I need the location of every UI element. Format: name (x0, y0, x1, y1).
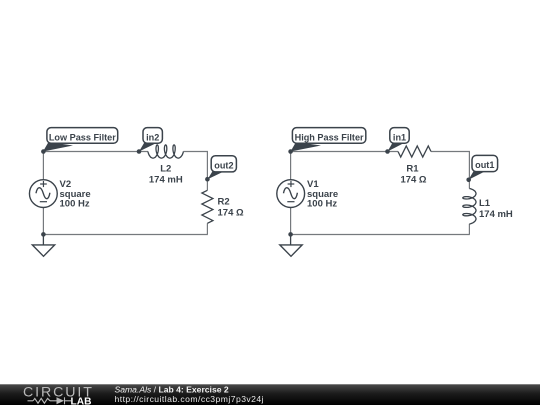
svg-text:L1: L1 (479, 198, 491, 209)
callout out1 (469, 155, 498, 179)
wire top-left vertical (V2 to top rail) (42, 152, 44, 180)
svg-text:R1: R1 (406, 164, 419, 175)
ground (left) (32, 245, 54, 256)
wire ground stub (42, 235, 44, 246)
svg-text:174 mH: 174 mH (479, 209, 513, 220)
node out2 (205, 177, 210, 182)
node top-left (High Pass Filter anchor) (288, 149, 293, 154)
svg-text:out1: out1 (475, 160, 494, 170)
wire right vertical below L1 (468, 224, 470, 235)
resistor R1 (398, 146, 431, 157)
svg-text:in1: in1 (393, 132, 406, 142)
node in2 (137, 149, 142, 154)
svg-text:100 Hz: 100 Hz (60, 199, 90, 210)
voltage source V1 (277, 180, 305, 208)
footer black bar (0, 384, 540, 405)
svg-text:in2: in2 (146, 132, 159, 142)
callout in2 (139, 128, 162, 152)
voltage source V2 (29, 180, 57, 208)
svg-text:Low Pass Filter: Low Pass Filter (49, 132, 116, 142)
svg-text:LAB: LAB (71, 396, 92, 405)
ground (right) (280, 245, 302, 256)
resistor R2 (202, 190, 213, 223)
svg-text:out2: out2 (214, 160, 233, 170)
wire top rail left segment (290, 151, 398, 153)
wire right vertical above L1 (468, 152, 470, 189)
logo schematic: wire-resistor-diode glyph (28, 397, 72, 404)
wire right vertical above R2 (206, 152, 208, 191)
node in1 (385, 149, 390, 154)
svg-text:174 mH: 174 mH (149, 175, 183, 186)
wire V1 bottom to bottom rail (290, 208, 292, 235)
svg-text:R2: R2 (218, 197, 230, 208)
svg-text:http://circuitlab.com/cc3pmj7p: http://circuitlab.com/cc3pmj7p3v24j (115, 394, 265, 404)
wire ground stub (290, 235, 292, 246)
wire top rail right of L2 (183, 151, 208, 153)
callout in1 (388, 128, 410, 152)
wire right vertical below R2 (206, 223, 208, 234)
svg-text:174 Ω: 174 Ω (400, 175, 426, 186)
logo diode triangle (57, 397, 65, 404)
inductor L1 (463, 189, 476, 225)
callout out2 (208, 156, 237, 180)
callout Low Pass Filter (43, 128, 118, 152)
node bottom-left junction (right circuit) (288, 232, 293, 237)
svg-text:100 Hz: 100 Hz (307, 199, 337, 210)
wire bottom rail (43, 234, 208, 236)
node out1 (466, 178, 471, 183)
svg-text:174 Ω: 174 Ω (218, 208, 244, 219)
wire top rail left segment (43, 151, 148, 153)
node bottom-left junction (41, 232, 46, 237)
wire V2 bottom to bottom rail (42, 208, 44, 235)
svg-text:High Pass Filter: High Pass Filter (295, 132, 364, 142)
wire bottom rail (290, 234, 470, 236)
callout High Pass Filter (291, 128, 366, 152)
wire top-left vertical (V1 to top rail) (290, 152, 292, 180)
svg-text:L2: L2 (160, 164, 171, 175)
inductor L2 (148, 145, 184, 158)
node top-left (Low Pass Filter anchor) (41, 149, 46, 154)
wire top rail right of R1 (431, 151, 470, 153)
